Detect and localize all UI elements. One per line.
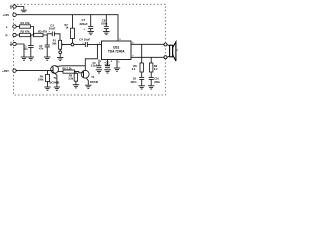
svg-text:R9: R9 <box>154 64 158 68</box>
svg-text:R2 47k: R2 47k <box>21 29 30 33</box>
svg-text:100n: 100n <box>101 22 108 26</box>
svg-text:220n: 220n <box>154 80 160 84</box>
svg-text:10n: 10n <box>23 48 28 51</box>
svg-text:50k: 50k <box>52 41 57 45</box>
svg-text:T2: T2 <box>91 75 95 79</box>
svg-text:100k: 100k <box>38 77 44 81</box>
svg-text:R8: R8 <box>133 64 137 68</box>
svg-text:2: 2 <box>100 61 102 63</box>
svg-text:C4 10uF: C4 10uF <box>79 37 90 41</box>
svg-text:+ANT: +ANT <box>2 69 9 73</box>
svg-text:3.3k: 3.3k <box>68 77 74 81</box>
svg-text:4: 4 <box>111 60 113 63</box>
svg-text:47n: 47n <box>39 48 44 51</box>
svg-text:R5 2.2k: R5 2.2k <box>63 66 73 70</box>
svg-text:R1 47k: R1 47k <box>21 21 30 25</box>
svg-text:6: 6 <box>118 61 120 63</box>
svg-text:+: + <box>48 31 50 34</box>
svg-text:BC548: BC548 <box>90 80 99 84</box>
svg-text:+12V: +12V <box>3 13 10 17</box>
svg-text:BC548B: BC548B <box>50 80 60 84</box>
svg-text:R3 47k: R3 47k <box>38 29 47 33</box>
svg-text:L: L <box>6 25 8 29</box>
svg-text:2.2uF: 2.2uF <box>91 65 98 68</box>
svg-text:220n: 220n <box>131 80 137 84</box>
svg-text:220uF: 220uF <box>80 22 88 26</box>
svg-text:2.2: 2.2 <box>154 67 158 71</box>
svg-text:P: P <box>6 33 8 37</box>
svg-text:C10: C10 <box>154 77 159 81</box>
svg-text:22uF: 22uF <box>105 64 111 67</box>
svg-text:+: + <box>84 28 86 31</box>
svg-text:2.2: 2.2 <box>132 67 136 71</box>
svg-text:C9: C9 <box>133 77 137 81</box>
svg-text:TDA 7240A: TDA 7240A <box>108 49 125 53</box>
svg-text:1k: 1k <box>66 26 69 30</box>
